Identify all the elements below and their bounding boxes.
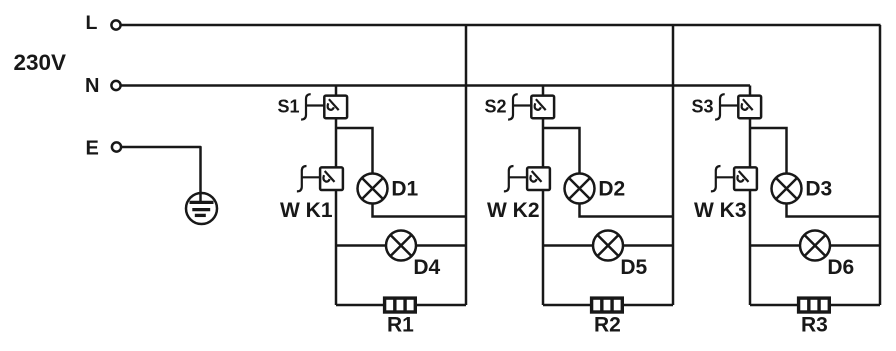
svg-text:W K3: W K3: [694, 199, 747, 222]
svg-text:D3: D3: [805, 177, 832, 200]
svg-text:W K1: W K1: [280, 199, 333, 222]
svg-text:D4: D4: [413, 256, 440, 279]
svg-text:D2: D2: [598, 177, 625, 200]
svg-text:E: E: [86, 138, 99, 160]
svg-text:L: L: [86, 12, 98, 34]
svg-text:N: N: [85, 75, 99, 97]
svg-text:W K2: W K2: [487, 199, 540, 222]
svg-text:S3: S3: [692, 96, 714, 116]
svg-text:D1: D1: [391, 177, 418, 200]
svg-text:D5: D5: [620, 256, 647, 279]
svg-text:D6: D6: [827, 256, 854, 279]
svg-text:R2: R2: [594, 314, 621, 337]
svg-text:230V: 230V: [14, 50, 67, 75]
svg-text:S1: S1: [278, 96, 300, 116]
svg-text:R3: R3: [801, 314, 828, 337]
svg-text:S2: S2: [485, 96, 507, 116]
svg-text:R1: R1: [387, 314, 414, 337]
